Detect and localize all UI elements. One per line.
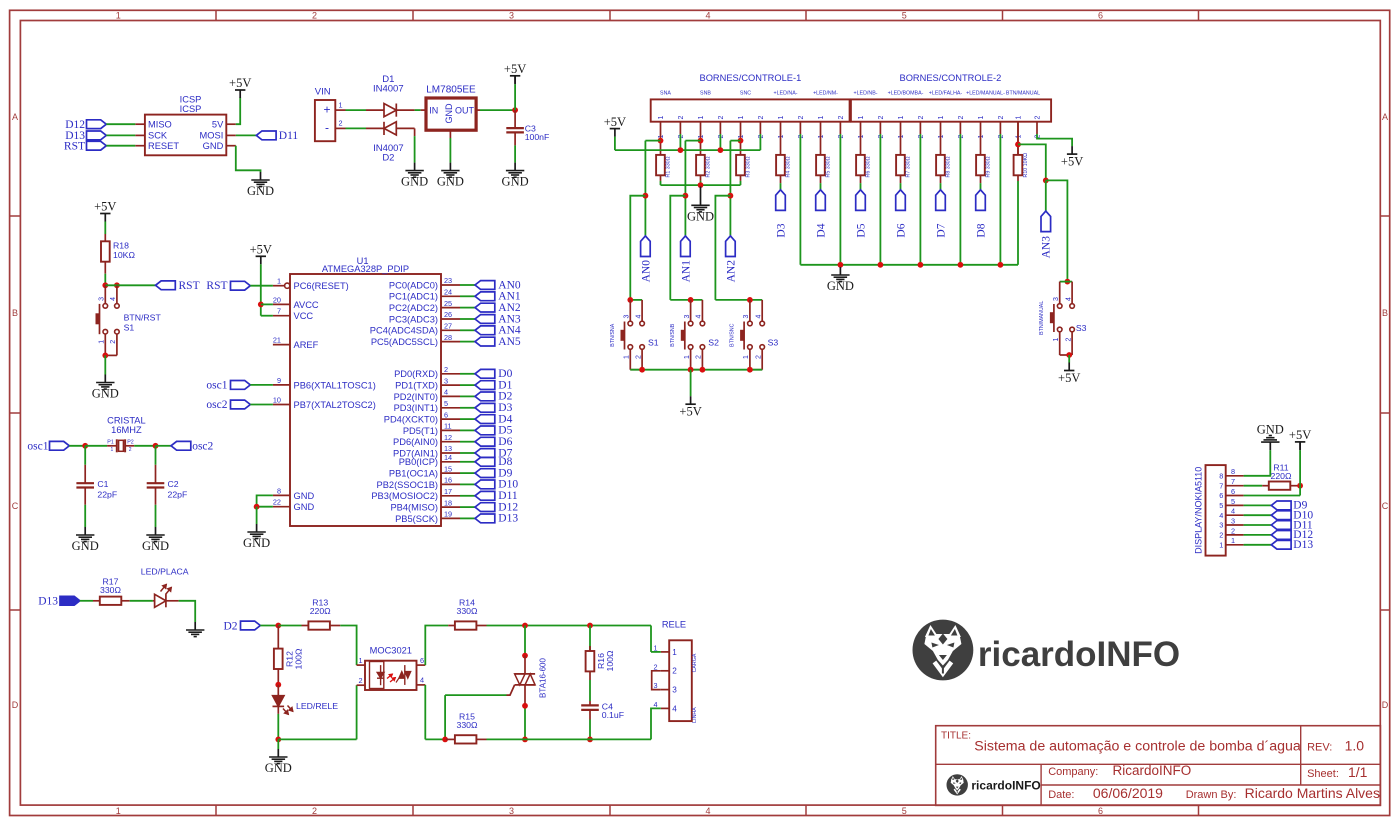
- svg-text:1: 1: [778, 116, 785, 120]
- svg-text:D13: D13: [38, 596, 58, 608]
- svg-text:4: 4: [1065, 297, 1072, 301]
- svg-text:19: 19: [444, 510, 452, 519]
- svg-text:GND: GND: [203, 141, 224, 151]
- svg-text:osc1: osc1: [27, 440, 48, 452]
- svg-text:16: 16: [444, 476, 452, 485]
- svg-text:D3: D3: [775, 223, 787, 237]
- svg-text:AN3: AN3: [498, 313, 521, 325]
- svg-text:PD5(T1): PD5(T1): [403, 426, 438, 436]
- svg-text:25: 25: [444, 299, 452, 308]
- svg-text:2: 2: [718, 116, 725, 120]
- svg-text:D: D: [12, 700, 19, 710]
- svg-text:S3: S3: [768, 338, 779, 348]
- svg-text:5: 5: [902, 11, 907, 21]
- svg-text:1: 1: [1015, 116, 1022, 120]
- svg-text:1: 1: [738, 116, 745, 120]
- svg-text:GND: GND: [142, 539, 169, 553]
- svg-text:1.0: 1.0: [1345, 738, 1365, 754]
- svg-text:S2: S2: [708, 338, 719, 348]
- svg-text:AN2: AN2: [498, 302, 521, 314]
- svg-text:ICSP: ICSP: [180, 104, 202, 114]
- svg-text:5: 5: [1219, 501, 1223, 510]
- svg-text:BTN/SNC: BTN/SNC: [729, 323, 735, 346]
- svg-text:26: 26: [444, 310, 452, 319]
- svg-text:D6: D6: [498, 436, 512, 448]
- svg-text:1: 1: [1053, 338, 1060, 342]
- svg-text:8: 8: [1219, 471, 1223, 480]
- svg-text:220Ω: 220Ω: [1271, 471, 1292, 481]
- svg-text:21: 21: [273, 336, 281, 345]
- svg-text:2: 2: [1065, 338, 1072, 342]
- svg-text:+LED/MANUAL-: +LED/MANUAL-: [966, 90, 1005, 96]
- svg-text:PC1(ADC1): PC1(ADC1): [389, 292, 438, 302]
- svg-text:28: 28: [444, 333, 452, 342]
- svg-text:C2: C2: [168, 479, 179, 489]
- svg-text:+: +: [323, 103, 330, 117]
- svg-text:S1: S1: [648, 338, 659, 348]
- svg-text:PC4(ADC4SDA): PC4(ADC4SDA): [370, 326, 438, 336]
- svg-text:6: 6: [1231, 487, 1235, 496]
- svg-text:D11: D11: [498, 490, 518, 502]
- svg-text:Company:: Company:: [1048, 766, 1098, 778]
- svg-text:PD3(INT1): PD3(INT1): [394, 403, 438, 413]
- svg-text:1: 1: [684, 355, 691, 359]
- svg-text:PD6(AIN0): PD6(AIN0): [393, 437, 438, 447]
- svg-text:22pF: 22pF: [97, 490, 117, 500]
- svg-text:27: 27: [444, 322, 452, 331]
- svg-text:R4 330Ω: R4 330Ω: [786, 156, 792, 177]
- svg-text:1: 1: [116, 806, 121, 816]
- svg-text:4: 4: [705, 11, 710, 21]
- svg-text:6: 6: [444, 410, 448, 419]
- svg-text:1: 1: [624, 355, 631, 359]
- svg-text:3: 3: [509, 11, 514, 21]
- svg-text:17: 17: [444, 487, 452, 496]
- svg-text:AN1: AN1: [680, 260, 692, 283]
- svg-text:11: 11: [444, 422, 452, 431]
- svg-text:+5V: +5V: [504, 62, 526, 76]
- svg-text:D11: D11: [279, 130, 299, 142]
- svg-text:1: 1: [111, 447, 114, 453]
- svg-text:GND: GND: [1257, 423, 1284, 437]
- svg-text:Ricardo Martins Alves: Ricardo Martins Alves: [1245, 785, 1380, 801]
- svg-text:S1: S1: [124, 323, 135, 333]
- svg-text:GND: GND: [265, 761, 292, 775]
- svg-text:osc2: osc2: [206, 399, 227, 411]
- svg-text:8: 8: [277, 486, 281, 495]
- svg-text:IN4007: IN4007: [373, 83, 404, 94]
- svg-text:AN0: AN0: [640, 260, 652, 283]
- svg-text:3: 3: [672, 686, 677, 695]
- svg-text:D8: D8: [498, 456, 512, 468]
- svg-text:GND: GND: [92, 387, 119, 401]
- svg-text:1: 1: [858, 116, 865, 120]
- svg-text:6: 6: [1219, 491, 1223, 500]
- svg-text:PB6(XTAL1TOSC1): PB6(XTAL1TOSC1): [294, 380, 376, 390]
- svg-text:SNA: SNA: [660, 90, 671, 96]
- svg-text:4: 4: [672, 704, 677, 713]
- svg-text:1: 1: [898, 116, 905, 120]
- svg-text:ricardoINFO: ricardoINFO: [978, 635, 1180, 674]
- svg-text:B: B: [1382, 308, 1388, 318]
- svg-text:2: 2: [758, 116, 765, 120]
- svg-text:2: 2: [444, 365, 448, 374]
- svg-text:1: 1: [1219, 540, 1223, 549]
- svg-text:PC0(ADC0): PC0(ADC0): [389, 280, 438, 290]
- svg-text:2: 2: [838, 116, 845, 120]
- svg-text:1: 1: [1231, 536, 1235, 545]
- svg-text:PD4(XCKT0): PD4(XCKT0): [384, 415, 438, 425]
- svg-text:PB1(OC1A): PB1(OC1A): [389, 469, 438, 479]
- svg-text:3: 3: [684, 315, 691, 319]
- svg-text:5: 5: [902, 806, 907, 816]
- svg-text:2: 2: [958, 116, 965, 120]
- svg-text:osc1: osc1: [206, 379, 227, 391]
- svg-text:4: 4: [696, 315, 703, 319]
- svg-text:2: 2: [358, 676, 362, 685]
- svg-text:D13: D13: [1293, 539, 1313, 551]
- svg-text:1: 1: [818, 135, 825, 139]
- svg-text:PD2(INT0): PD2(INT0): [394, 392, 438, 402]
- svg-text:3: 3: [1219, 521, 1223, 530]
- svg-text:2: 2: [1231, 526, 1235, 535]
- svg-text:RST: RST: [206, 280, 227, 292]
- svg-text:Sheet:: Sheet:: [1307, 768, 1339, 780]
- svg-text:GND: GND: [72, 539, 99, 553]
- svg-text:1: 1: [339, 100, 343, 109]
- svg-text:1: 1: [898, 135, 905, 139]
- svg-text:2: 2: [878, 116, 885, 120]
- svg-text:OUT: OUT: [455, 106, 475, 116]
- svg-text:16MHZ: 16MHZ: [111, 425, 142, 435]
- svg-text:330Ω: 330Ω: [457, 606, 478, 616]
- svg-text:SNC: SNC: [740, 90, 751, 96]
- svg-text:BORNES/CONTROLE-1: BORNES/CONTROLE-1: [700, 73, 802, 83]
- svg-text:22pF: 22pF: [168, 490, 188, 500]
- svg-text:R10 10KΩ: R10 10KΩ: [1023, 153, 1029, 178]
- svg-text:2: 2: [312, 806, 317, 816]
- svg-text:C: C: [1382, 501, 1389, 511]
- svg-text:PB4(MISO): PB4(MISO): [390, 503, 438, 513]
- svg-text:PB2(SSOC1B): PB2(SSOC1B): [377, 480, 438, 490]
- svg-text:5V: 5V: [212, 120, 224, 130]
- svg-text:RESET: RESET: [148, 141, 179, 151]
- svg-text:A: A: [12, 112, 18, 122]
- svg-text:1: 1: [1015, 135, 1022, 139]
- svg-text:CARGA: CARGA: [692, 653, 698, 672]
- svg-text:R8 330Ω: R8 330Ω: [946, 156, 952, 177]
- svg-text:R3 330Ω: R3 330Ω: [746, 156, 752, 177]
- svg-text:20: 20: [273, 295, 281, 304]
- svg-text:IN: IN: [429, 106, 438, 116]
- svg-text:1: 1: [277, 277, 281, 286]
- svg-text:PC2(ADC2): PC2(ADC2): [389, 303, 438, 313]
- svg-text:1: 1: [938, 116, 945, 120]
- svg-text:10KΩ: 10KΩ: [113, 250, 135, 260]
- svg-text:GND: GND: [247, 184, 274, 198]
- svg-text:GND: GND: [444, 103, 454, 124]
- svg-text:D: D: [1382, 700, 1389, 710]
- svg-text:R1 330Ω: R1 330Ω: [666, 156, 672, 177]
- svg-text:PC6(RESET): PC6(RESET): [294, 281, 349, 291]
- svg-text:8: 8: [1231, 467, 1235, 476]
- svg-text:R7 330Ω: R7 330Ω: [906, 156, 912, 177]
- svg-text:0.1uF: 0.1uF: [602, 710, 624, 720]
- svg-text:BTN/MANUAL: BTN/MANUAL: [1039, 301, 1045, 335]
- svg-text:2: 2: [672, 667, 677, 676]
- svg-text:4: 4: [444, 388, 448, 397]
- svg-text:SCK: SCK: [148, 131, 168, 141]
- svg-text:330Ω: 330Ω: [457, 720, 478, 730]
- svg-text:100nF: 100nF: [525, 132, 550, 142]
- svg-text:RicardoINFO: RicardoINFO: [1113, 763, 1192, 778]
- svg-text:S3: S3: [1076, 323, 1087, 333]
- svg-text:2: 2: [1034, 116, 1041, 120]
- svg-text:R2 330Ω: R2 330Ω: [706, 156, 712, 177]
- svg-text:PD1(TXD): PD1(TXD): [395, 381, 438, 391]
- svg-text:4: 4: [110, 297, 117, 301]
- svg-text:+LED/NA-: +LED/NA-: [774, 90, 798, 96]
- svg-text:12: 12: [444, 433, 452, 442]
- svg-text:1: 1: [698, 116, 705, 120]
- svg-text:BTN/RST: BTN/RST: [124, 312, 162, 322]
- svg-text:4: 4: [755, 315, 762, 319]
- svg-text:+LED/NM-: +LED/NM-: [813, 90, 838, 96]
- svg-text:+5V: +5V: [604, 115, 626, 129]
- svg-text:AN5: AN5: [498, 336, 521, 348]
- svg-text:330Ω: 330Ω: [100, 585, 121, 595]
- svg-text:+5V: +5V: [1061, 155, 1083, 169]
- svg-text:LED/PLACA: LED/PLACA: [141, 566, 189, 576]
- svg-text:D2: D2: [223, 621, 237, 633]
- svg-text:10: 10: [273, 396, 281, 405]
- svg-text:6: 6: [1098, 11, 1103, 21]
- svg-text:2: 2: [998, 116, 1005, 120]
- svg-text:2: 2: [918, 116, 925, 120]
- svg-text:6: 6: [420, 656, 424, 665]
- svg-text:D4: D4: [498, 413, 512, 425]
- svg-text:AN4: AN4: [498, 325, 521, 337]
- svg-text:3: 3: [99, 297, 106, 301]
- svg-text:RST: RST: [179, 280, 200, 292]
- svg-text:VCC: VCC: [294, 311, 314, 321]
- svg-text:+5V: +5V: [1058, 371, 1080, 385]
- svg-text:15: 15: [444, 464, 452, 473]
- svg-text:3: 3: [743, 315, 750, 319]
- svg-text:+5V: +5V: [94, 200, 116, 214]
- svg-text:D3: D3: [498, 402, 512, 414]
- svg-text:+LED/BOMBA-: +LED/BOMBA-: [888, 90, 924, 96]
- svg-text:2: 2: [110, 340, 117, 344]
- svg-text:23: 23: [444, 276, 452, 285]
- svg-text:-: -: [325, 121, 329, 135]
- svg-text:+5V: +5V: [679, 405, 701, 419]
- svg-text:6: 6: [1098, 806, 1103, 816]
- svg-text:2: 2: [312, 11, 317, 21]
- svg-text:PB5(SCK): PB5(SCK): [395, 514, 438, 524]
- svg-text:4: 4: [705, 806, 710, 816]
- svg-text:AN3: AN3: [1041, 236, 1053, 259]
- svg-text:1: 1: [99, 340, 106, 344]
- svg-text:B: B: [12, 308, 18, 318]
- svg-text:2: 2: [678, 116, 685, 120]
- svg-text:1: 1: [978, 135, 985, 139]
- svg-text:PB0(ICP): PB0(ICP): [399, 457, 438, 467]
- svg-text:1: 1: [818, 116, 825, 120]
- svg-text:+LED/NB-: +LED/NB-: [854, 90, 878, 96]
- svg-text:LINHA: LINHA: [692, 707, 698, 723]
- svg-text:DISPLAY/NOKIA5110: DISPLAY/NOKIA5110: [1194, 467, 1204, 554]
- svg-text:1: 1: [978, 116, 985, 120]
- svg-text:R5 330Ω: R5 330Ω: [826, 156, 832, 177]
- svg-text:2: 2: [635, 355, 642, 359]
- svg-text:3: 3: [444, 376, 448, 385]
- svg-text:1/1: 1/1: [1348, 764, 1368, 780]
- svg-text:LM7805EE: LM7805EE: [426, 85, 476, 96]
- svg-text:1: 1: [116, 11, 121, 21]
- svg-text:GND: GND: [827, 279, 854, 293]
- svg-text:D6: D6: [895, 223, 907, 237]
- svg-text:D12: D12: [498, 501, 518, 513]
- svg-text:D12: D12: [65, 119, 85, 131]
- svg-text:MISO: MISO: [148, 120, 172, 130]
- svg-text:BTA16-600: BTA16-600: [539, 658, 548, 698]
- svg-text:D9: D9: [498, 467, 512, 479]
- svg-text:5: 5: [444, 399, 448, 408]
- svg-text:AREF: AREF: [294, 340, 319, 350]
- svg-text:4: 4: [635, 315, 642, 319]
- svg-text:VIN: VIN: [315, 86, 331, 97]
- svg-text:1: 1: [658, 116, 665, 120]
- svg-text:AN0: AN0: [498, 279, 521, 291]
- svg-text:PD0(RXD): PD0(RXD): [394, 369, 438, 379]
- svg-text:2: 2: [1219, 531, 1223, 540]
- svg-text:BTN/SNA: BTN/SNA: [610, 323, 616, 346]
- svg-text:D10: D10: [498, 479, 518, 491]
- svg-text:GND: GND: [294, 502, 315, 512]
- svg-text:BTN/MANUAL: BTN/MANUAL: [1006, 90, 1040, 96]
- svg-text:4: 4: [1219, 511, 1223, 520]
- svg-text:1: 1: [358, 656, 362, 665]
- svg-text:3: 3: [624, 315, 631, 319]
- svg-text:GND: GND: [294, 491, 315, 501]
- svg-text:AVCC: AVCC: [294, 300, 319, 310]
- svg-text:D5: D5: [498, 425, 512, 437]
- svg-text:3: 3: [1231, 516, 1235, 525]
- svg-text:1: 1: [938, 135, 945, 139]
- svg-text:GND: GND: [687, 209, 714, 223]
- svg-text:AN2: AN2: [725, 260, 737, 283]
- svg-text:+5V: +5V: [229, 76, 251, 90]
- svg-text:D0: D0: [498, 368, 512, 380]
- svg-text:2: 2: [696, 355, 703, 359]
- svg-text:PC5(ADC5SCL): PC5(ADC5SCL): [371, 337, 438, 347]
- svg-text:TITLE:: TITLE:: [941, 731, 971, 742]
- svg-text:LED/RELE: LED/RELE: [296, 701, 338, 711]
- svg-text:D4: D4: [815, 223, 827, 237]
- svg-text:ricardoINFO: ricardoINFO: [971, 778, 1040, 792]
- svg-text:PC3(ADC3): PC3(ADC3): [389, 314, 438, 324]
- svg-text:Date:: Date:: [1048, 789, 1074, 801]
- svg-text:RELE: RELE: [662, 620, 686, 630]
- svg-text:D8: D8: [975, 223, 987, 237]
- svg-text:18: 18: [444, 498, 452, 507]
- svg-text:PB3(MOSIOC2): PB3(MOSIOC2): [371, 491, 438, 501]
- svg-text:7: 7: [1231, 477, 1235, 486]
- svg-text:MOC3021: MOC3021: [370, 645, 412, 655]
- svg-text:2: 2: [798, 116, 805, 120]
- svg-text:+LED/FALHA-: +LED/FALHA-: [929, 90, 963, 96]
- svg-text:R9 330Ω: R9 330Ω: [986, 156, 992, 177]
- svg-text:9: 9: [277, 376, 281, 385]
- svg-text:14: 14: [444, 453, 452, 462]
- svg-text:osc2: osc2: [192, 441, 213, 453]
- svg-text:GND: GND: [437, 175, 464, 189]
- svg-text:PB7(XTAL2TOSC2): PB7(XTAL2TOSC2): [294, 400, 376, 410]
- svg-text:1: 1: [778, 135, 785, 139]
- svg-text:C: C: [12, 501, 19, 511]
- svg-text:P2: P2: [127, 440, 134, 446]
- svg-text:BTN/SNB: BTN/SNB: [670, 323, 676, 346]
- svg-text:4: 4: [420, 676, 424, 685]
- svg-text:C1: C1: [97, 479, 108, 489]
- svg-text:Sistema de automação e control: Sistema de automação e controle de bomba…: [974, 739, 1301, 755]
- svg-text:D2: D2: [382, 152, 394, 163]
- svg-text:2: 2: [339, 119, 343, 128]
- svg-text:+5V: +5V: [250, 243, 272, 257]
- svg-text:22: 22: [273, 498, 281, 507]
- svg-text:220Ω: 220Ω: [310, 606, 331, 616]
- svg-text:1: 1: [672, 648, 677, 657]
- svg-text:1: 1: [858, 135, 865, 139]
- svg-text:GND: GND: [401, 175, 428, 189]
- svg-text:+5V: +5V: [1289, 428, 1311, 442]
- svg-text:AN1: AN1: [498, 291, 521, 303]
- svg-text:100Ω: 100Ω: [605, 650, 615, 671]
- svg-text:24: 24: [444, 288, 452, 297]
- svg-text:RST: RST: [64, 141, 85, 153]
- svg-text:D1: D1: [498, 379, 512, 391]
- svg-text:D5: D5: [855, 223, 867, 237]
- svg-text:GND: GND: [243, 536, 270, 550]
- svg-text:SNB: SNB: [700, 90, 711, 96]
- svg-text:ATMEGA328P_PDIP: ATMEGA328P_PDIP: [322, 264, 409, 274]
- svg-text:MOSI: MOSI: [200, 131, 224, 141]
- svg-text:GND: GND: [502, 175, 529, 189]
- svg-text:BORNES/CONTROLE-2: BORNES/CONTROLE-2: [900, 73, 1002, 83]
- svg-text:1: 1: [743, 355, 750, 359]
- svg-text:5: 5: [1231, 497, 1235, 506]
- svg-text:Drawn By:: Drawn By:: [1186, 789, 1237, 801]
- svg-text:3: 3: [509, 806, 514, 816]
- svg-text:D13: D13: [498, 513, 518, 525]
- svg-text:2: 2: [755, 355, 762, 359]
- svg-text:100Ω: 100Ω: [294, 648, 304, 669]
- svg-text:7: 7: [277, 307, 281, 316]
- svg-text:D7: D7: [935, 223, 947, 237]
- svg-text:REV:: REV:: [1307, 742, 1332, 754]
- svg-text:D2: D2: [498, 391, 512, 403]
- svg-text:7: 7: [1219, 481, 1223, 490]
- svg-text:13: 13: [444, 444, 452, 453]
- svg-text:R6 330Ω: R6 330Ω: [866, 156, 872, 177]
- svg-text:06/06/2019: 06/06/2019: [1093, 785, 1163, 801]
- svg-text:2: 2: [129, 447, 132, 453]
- svg-text:3: 3: [1053, 297, 1060, 301]
- svg-text:P1: P1: [107, 440, 114, 446]
- svg-text:A: A: [1382, 112, 1388, 122]
- svg-text:4: 4: [1231, 507, 1235, 516]
